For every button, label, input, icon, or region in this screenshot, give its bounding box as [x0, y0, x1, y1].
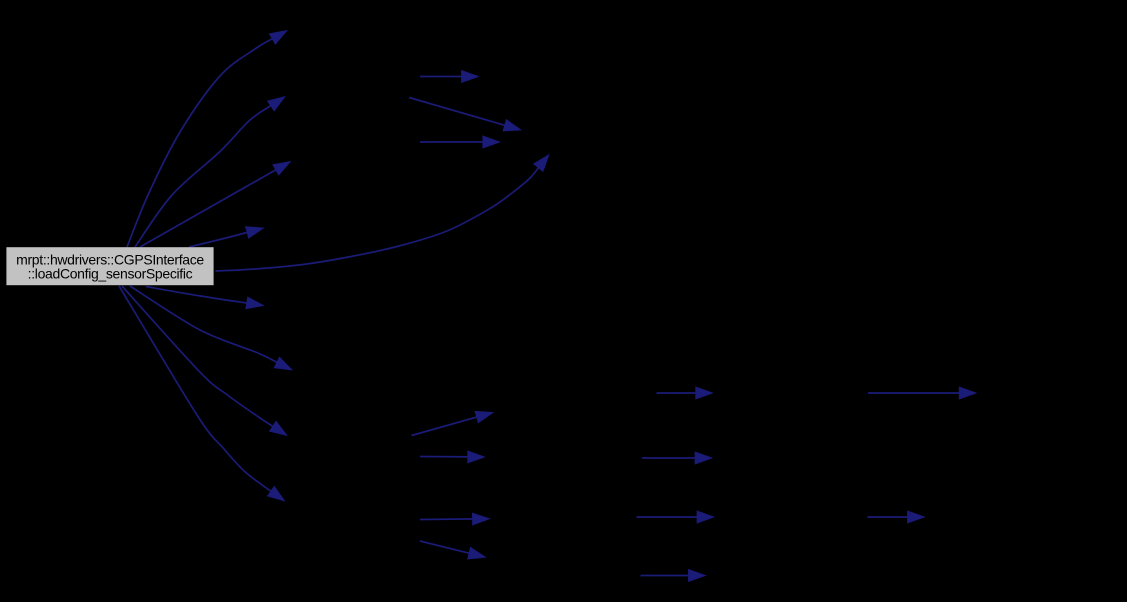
node box: mrpt::hwdrivers::CGPSInterface::loadConfig_sensorSpecific (current function, grey fill) [6, 247, 213, 285]
edge: column-3 node 2 -> column-4 node 2 [642, 452, 712, 464]
edge 7: loadConfig_sensorSpecific -> callee [130, 286, 292, 370]
edge 3: loadConfig_sensorSpecific -> callee [140, 162, 291, 248]
edge 8: loadConfig_sensorSpecific -> callee [122, 286, 287, 436]
edge: column-4 node -> column-5 node [868, 387, 976, 399]
edge: column-3 node 4 -> column-4 node 4 [641, 570, 706, 582]
edge: column-4 node 3 -> column-5 node 2 [867, 511, 924, 523]
edge: lower-mid node 2 -> sub-callee 3 [420, 513, 490, 525]
edge 4: loadConfig_sensorSpecific -> callee [189, 227, 264, 247]
edge: column-3 node 3 -> column-4 node 3 [637, 511, 715, 523]
edge: lower-mid node -> sub-callee [412, 411, 494, 435]
edge: column-3 node -> column-4 node [657, 387, 713, 399]
edge 5: loadConfig_sensorSpecific -> callee (long curve) [216, 155, 550, 272]
edge: mid-top node -> sub-callee [420, 71, 479, 83]
edge 6: loadConfig_sensorSpecific -> callee [146, 287, 264, 309]
edge: mid-top node 2 -> sub-callee 2 [420, 136, 500, 148]
edge: lower-mid node -> sub-callee 2 [420, 451, 485, 463]
edge 2: loadConfig_sensorSpecific -> callee [135, 97, 285, 248]
edge 1: loadConfig_sensorSpecific -> callee (top) [127, 31, 287, 248]
edge 9: loadConfig_sensorSpecific -> callee (bottom) [119, 286, 285, 501]
edge: lower-mid node 2 -> sub-callee 4 [420, 541, 486, 559]
edge: mid-top node -> sub-callee 2 [409, 98, 521, 132]
svg-text:::loadConfig_sensorSpecific: ::loadConfig_sensorSpecific [28, 266, 193, 282]
